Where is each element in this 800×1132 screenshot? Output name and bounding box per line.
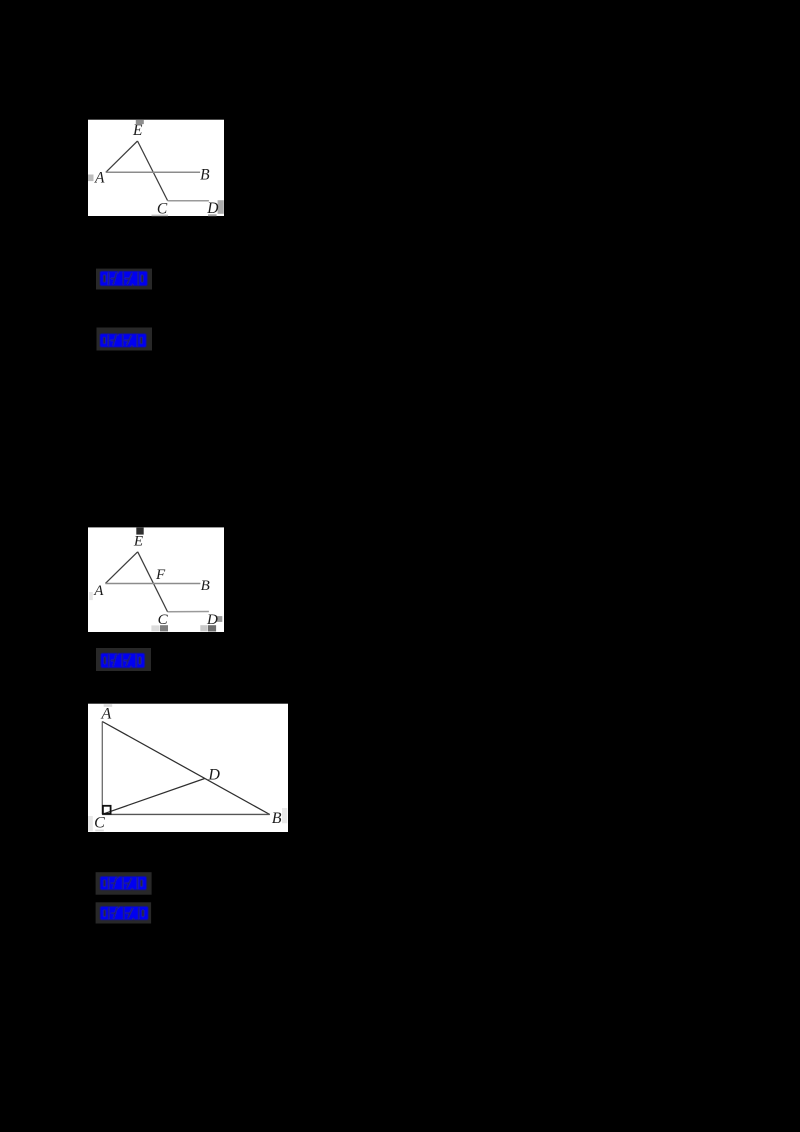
svg-text:E: E <box>132 122 143 139</box>
fig3 light strip below C <box>95 830 104 832</box>
fig3 light strip above A <box>104 704 113 707</box>
fig2 dark artifact below C <box>160 625 168 631</box>
fig1 gray artifact above E <box>136 120 144 124</box>
svg-text:D: D <box>206 200 218 217</box>
fig3 wire: line CD <box>102 779 204 815</box>
svg-text:A: A <box>94 170 105 187</box>
svg-text:D: D <box>206 612 218 628</box>
svg-text:D: D <box>207 767 220 784</box>
fig2 light artifact below C <box>151 625 159 631</box>
blue tag block 4 <box>96 872 152 895</box>
fig1 gray strip below C <box>152 215 169 217</box>
fig2 wire: line CD <box>168 611 209 613</box>
svg-text:E: E <box>133 534 143 550</box>
fig1 gray strip below D <box>208 214 217 216</box>
fig2 wire: line EA <box>105 552 137 584</box>
fig2 dark artifact below D <box>208 625 216 631</box>
blue tag block 2 <box>97 328 153 351</box>
svg-text:B: B <box>272 810 282 827</box>
svg-text:B: B <box>201 578 210 594</box>
fig2 dark artifact above E <box>136 528 143 535</box>
svg-text:C: C <box>157 200 168 217</box>
blue tag block 1 <box>96 269 152 290</box>
fig3 right-angle mark at C <box>103 806 111 814</box>
fig2 light artifact below D <box>200 625 207 631</box>
fig1 wire: line EC <box>138 141 168 201</box>
blue tag block 3 <box>96 648 151 671</box>
fig1 gray artifact left of A <box>88 175 94 182</box>
fig2 wire: line EC <box>138 552 168 612</box>
figure 1 white box <box>88 120 224 216</box>
svg-text:A: A <box>93 583 104 599</box>
fig2 gray artifact right of D <box>217 616 222 622</box>
fig2 gray artifact left edge below A <box>89 592 93 600</box>
fig3 light artifact right of B <box>282 808 287 823</box>
fig1 gray artifact right of D <box>218 200 224 214</box>
svg-text:A: A <box>101 706 112 723</box>
fig1 wire: line EA <box>106 141 138 172</box>
fig2 wire: line AB <box>105 583 200 585</box>
fig3 wire: line AB hypotenuse <box>102 722 269 815</box>
fig1 wire: line AB <box>106 171 200 173</box>
fig3 light artifact bottom-left corner <box>88 816 93 831</box>
blue tag block 5 <box>96 902 152 923</box>
fig1 wire: line CD <box>168 200 209 202</box>
svg-text:F: F <box>155 567 166 583</box>
svg-text:C: C <box>94 815 105 832</box>
svg-text:C: C <box>158 612 169 628</box>
fig3 wire: line AC <box>101 722 103 815</box>
figure 2 white box <box>88 527 224 632</box>
svg-text:B: B <box>200 166 210 183</box>
figure 3 white box <box>88 704 288 832</box>
fig3 wire: line CB <box>102 813 269 815</box>
